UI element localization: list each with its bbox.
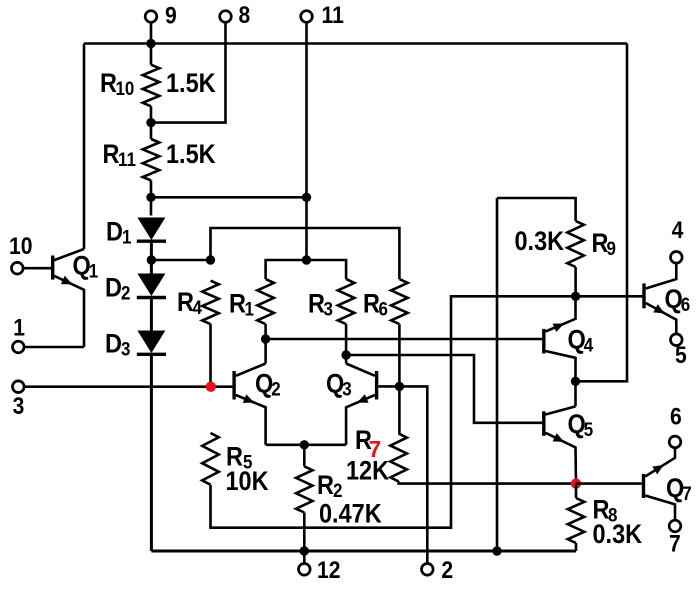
pin 7 terminal [669, 520, 681, 532]
Q6 emitter arrow [653, 304, 664, 313]
wire R1 bottom to Q2 collector [264, 324, 267, 363]
Q2 base node red junction [206, 382, 216, 392]
Q4 emitter arrow [553, 324, 565, 333]
wire R1 R3 top line from pin 11 [266, 260, 347, 279]
svg-text:2: 2 [441, 557, 453, 584]
wire R9 top link [497, 198, 576, 221]
junction Q3 base node (R6/R7/pin2) [395, 382, 404, 391]
svg-text:2: 2 [333, 479, 342, 501]
wire Q7 emitter diagonal up to pin 6 [645, 448, 675, 477]
wire Q3 base to pin-2 drop [378, 386, 427, 563]
resistor R10 [143, 65, 160, 107]
transistor Q6 [642, 283, 645, 308]
svg-text:1: 1 [245, 297, 254, 319]
wire D3 down left rail to bottom rail (crosses pin3 line) [150, 354, 153, 551]
svg-text:8: 8 [239, 2, 251, 29]
svg-text:1: 1 [122, 225, 131, 247]
wire Q4 collector down to shared node [546, 351, 576, 406]
wire Q2 collector node to Q4 base [266, 338, 542, 341]
svg-text:3: 3 [342, 377, 351, 399]
wire R2 bottom to ground rail [303, 513, 306, 564]
wire pin 3 to Q2 base (crosses diode rail) [24, 385, 232, 388]
svg-text:R: R [229, 289, 246, 319]
svg-text:D: D [105, 273, 122, 303]
junction R4 top [206, 255, 215, 264]
svg-text:R: R [308, 289, 325, 319]
wire Q6 collector diagonal to pin 4 [646, 263, 677, 288]
wire R7 bottom to Q7 base node [399, 481, 576, 483]
junction pin9/rail [146, 39, 155, 48]
svg-text:11: 11 [322, 2, 344, 29]
wire R8 stems [575, 484, 578, 551]
svg-text:10: 10 [116, 77, 135, 99]
pin 2 terminal [422, 564, 434, 576]
resistor R8 [568, 498, 585, 543]
wire pin 11 stem down to R11 bottom line and R1/R3 top line [305, 22, 308, 260]
svg-text:2: 2 [121, 281, 130, 303]
svg-text:5: 5 [584, 418, 593, 440]
junction Q4/Q5 collectors to supply [571, 377, 580, 386]
wire Q2 emitter diagonal down to shared emitter line [236, 395, 266, 445]
diode D2 [137, 274, 165, 297]
wire Q3 collector diagonal [346, 364, 375, 376]
junction R9/Q4 emitter/Q6 base [571, 292, 580, 301]
svg-text:10: 10 [9, 233, 32, 260]
junction Q3 collector node [341, 350, 350, 359]
diode D1 [137, 218, 165, 241]
wire bottom ground rail y=551 [151, 550, 576, 553]
pin 11 terminal [301, 11, 313, 23]
wire R3 bottom to Q3 collector [345, 324, 348, 363]
svg-text:R: R [177, 288, 194, 318]
pin 6 terminal [669, 436, 681, 448]
junction R10/R11/pin8 [146, 118, 155, 127]
resistor R4 [202, 281, 219, 324]
wire R11-bottom node to pin 11 line [151, 196, 307, 199]
wire pin 8 stem down to R10-R11 node (crosses rail, no join) [151, 22, 226, 122]
resistor R5 [202, 433, 219, 485]
wire R4-top node up and over to R6 top [211, 228, 400, 279]
svg-text:4: 4 [584, 333, 594, 355]
wire R4 bottom to Q2 base node [209, 324, 212, 387]
svg-text:0.47K: 0.47K [319, 499, 382, 529]
wire bias node to R4 top [151, 259, 210, 262]
wire R10 bottom [150, 106, 153, 139]
wire Q1 collector diagonal [54, 249, 85, 260]
svg-text:D: D [105, 329, 122, 359]
wire pin 9 stem to rail [150, 22, 153, 64]
svg-text:R: R [317, 471, 334, 501]
wire Q4 emitter diagonal up to R9 node [546, 296, 576, 331]
junction pin11/R1/R3 [302, 255, 311, 264]
svg-text:1.5K: 1.5K [166, 140, 216, 170]
svg-text:2: 2 [271, 377, 280, 399]
resistor R3 [338, 279, 355, 324]
pin 8 terminal [220, 11, 232, 23]
svg-text:1.5K: 1.5K [166, 69, 216, 99]
junction R11 bottom node [146, 193, 155, 202]
svg-text:11: 11 [118, 148, 136, 170]
junction D1-D2 bias node [147, 255, 156, 264]
junction pin11 line at R11 node [302, 193, 311, 202]
junction Q2 collector node [261, 334, 270, 343]
junction emitters/R2 [300, 440, 309, 449]
diode D3 [137, 331, 165, 354]
wire Q6 emitter diagonal to pin 5 [646, 303, 677, 334]
Q2 emitter arrow [243, 394, 255, 403]
Q3 emitter arrow [357, 394, 369, 402]
transistor Q4 [542, 329, 545, 354]
svg-text:6: 6 [670, 403, 682, 430]
transistor Q2 [232, 371, 235, 400]
wire right rail x=627 down to Q4/Q5 collector node [576, 44, 628, 382]
svg-text:R: R [363, 289, 380, 319]
wire Q7 collector diagonal to pin 7 [645, 496, 675, 521]
transistor Q7 [642, 474, 645, 498]
svg-text:R: R [103, 140, 120, 170]
wire D1 to D2 [150, 241, 153, 273]
junction riser/ground rail [492, 546, 501, 555]
resistor R7 [390, 434, 407, 482]
transistor Q5 [542, 411, 545, 436]
resistor R6 [391, 279, 408, 324]
wire Q3 collector node to Q5 base [346, 355, 542, 423]
wire top supply rail y=43.5 from x=84 to x=627 [84, 42, 627, 45]
wire emitter node to R2 [303, 445, 306, 467]
Q1 emitter arrow [61, 276, 73, 285]
junction R2/pin12/rail [300, 546, 309, 555]
wire R5 bottom across to riser x=451 up to Q6 base line [211, 296, 644, 527]
wire shared emitter line [266, 443, 347, 446]
junction Q7 base node red [571, 478, 581, 488]
svg-text:7: 7 [682, 482, 691, 504]
svg-text:D: D [106, 217, 123, 247]
pin 12 terminal [299, 564, 311, 576]
pin 3 terminal [12, 381, 24, 393]
transistor Q3 (mirrored) [375, 371, 378, 400]
svg-text:R: R [100, 69, 117, 99]
wire left rail down to Q1 collector [83, 44, 86, 250]
svg-text:3: 3 [13, 393, 25, 420]
resistor R2 [296, 466, 313, 512]
Q7 emitter arrow [652, 465, 663, 475]
svg-text:9: 9 [165, 2, 177, 29]
pin 10 terminal [11, 262, 23, 274]
svg-text:0.3K: 0.3K [593, 520, 643, 550]
wire R6 bottom to Q3 base node [398, 324, 401, 434]
wire R11 bottom to D1 [150, 181, 153, 216]
svg-text:0.3K: 0.3K [515, 227, 565, 257]
resistor R1 [257, 279, 274, 324]
svg-text:1: 1 [89, 259, 98, 281]
svg-text:7: 7 [669, 530, 681, 557]
wire Q5 collector diagonal [546, 406, 576, 414]
Q5 emitter arrow [553, 433, 565, 442]
svg-text:3: 3 [324, 297, 333, 319]
pin 9 terminal [145, 11, 157, 23]
wire Q1 emitter diagonal [54, 276, 85, 347]
svg-text:9: 9 [607, 237, 616, 259]
transistor Q1 [51, 256, 54, 280]
svg-text:4: 4 [193, 296, 203, 318]
pin 4 terminal [671, 251, 683, 263]
svg-text:10K: 10K [226, 467, 270, 497]
pin 5 terminal [671, 334, 683, 346]
resistor R11 [143, 139, 160, 181]
pin 1 terminal [12, 341, 24, 353]
resistor R9 [567, 221, 584, 267]
svg-text:5: 5 [675, 342, 687, 369]
svg-text:1: 1 [13, 314, 25, 341]
wire pin 10 to Q1 base [23, 267, 51, 270]
wire Q5 emitter diagonal down to Q7 base node [546, 433, 577, 484]
wire Q7 base node to Q7 [576, 482, 642, 485]
svg-text:12K: 12K [346, 456, 390, 486]
svg-text:6: 6 [681, 293, 690, 315]
wire Q3 emitter diagonal [346, 395, 375, 445]
svg-text:12: 12 [317, 557, 340, 584]
svg-text:4: 4 [672, 217, 684, 244]
wire Q2 collector diagonal [236, 364, 266, 376]
svg-text:3: 3 [121, 337, 130, 359]
wire R9 bottom to Q6 base line [574, 267, 577, 296]
svg-text:6: 6 [379, 297, 388, 319]
wire D2 to D3 [150, 298, 153, 331]
wire riser x=497 from R9 top line to ground rail [496, 198, 499, 551]
wire pin 1 to Q1 emitter [24, 346, 84, 349]
